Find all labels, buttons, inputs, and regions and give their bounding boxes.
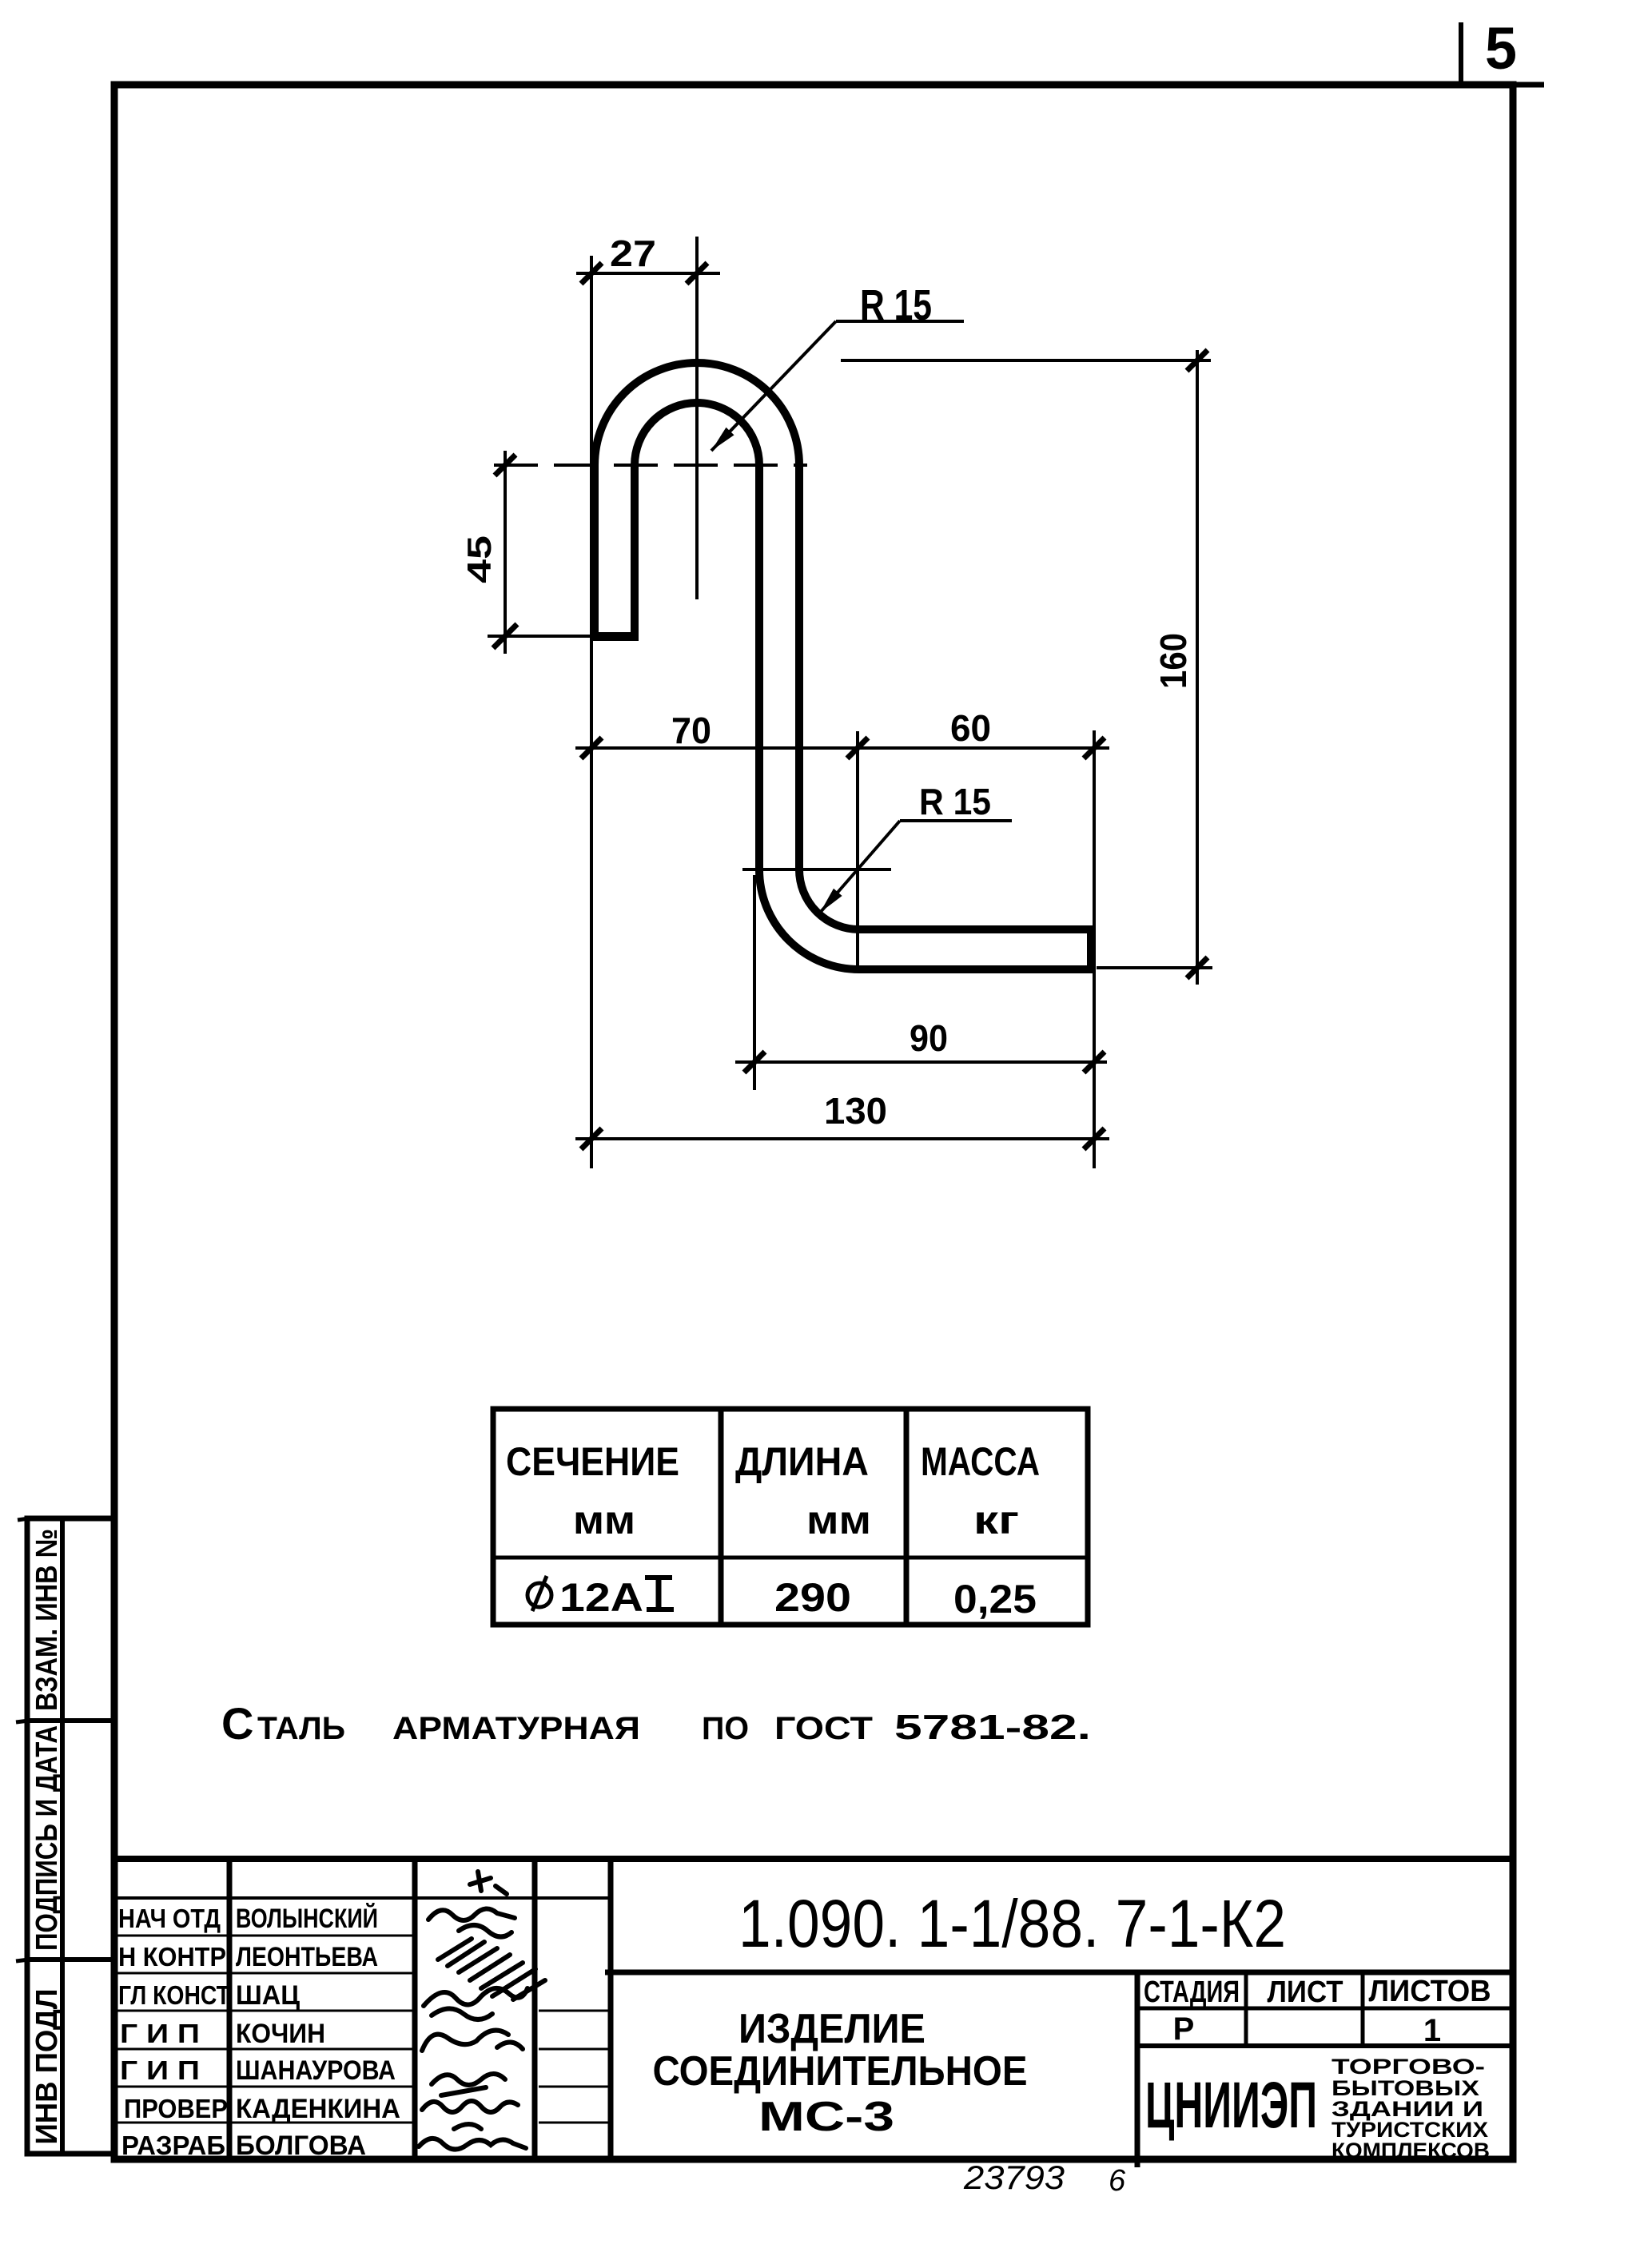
svg-text:Г И П: Г И П [120,2019,200,2048]
svg-text:ВОЛЫНСКИЙ: ВОЛЫНСКИЙ [236,1903,378,1934]
svg-text:12А: 12А [559,1575,643,1620]
svg-text:1: 1 [1423,2013,1441,2048]
svg-text:НАЧ ОТД: НАЧ ОТД [118,1904,221,1933]
svg-text:ДЛИНА: ДЛИНА [735,1439,869,1484]
svg-text:РАЗРАБ: РАЗРАБ [121,2131,225,2160]
svg-text:БОЛГОВА: БОЛГОВА [236,2131,366,2161]
svg-text:ГЛ КОНСТ: ГЛ КОНСТ [118,1980,230,2010]
svg-text:СЕЧЕНИЕ: СЕЧЕНИЕ [506,1439,679,1484]
svg-text:КОМПЛЕКСОВ: КОМПЛЕКСОВ [1332,2139,1490,2163]
svg-text:кг: кг [973,1498,1019,1542]
svg-text:ЛИСТ: ЛИСТ [1268,1976,1343,2009]
svg-text:ЛИСТОВ: ЛИСТОВ [1369,1975,1491,2008]
svg-text:С: С [221,1698,253,1749]
svg-text:130: 130 [824,1090,887,1132]
svg-text:0,25: 0,25 [953,1577,1037,1621]
svg-text:R 15: R 15 [860,281,932,329]
svg-text:90: 90 [910,1017,948,1059]
svg-text:1.090. 1-1/88. 7-1-К2: 1.090. 1-1/88. 7-1-К2 [738,1886,1286,1961]
svg-text:АРМАТУРНАЯ: АРМАТУРНАЯ [392,1711,640,1746]
svg-text:мм: мм [806,1498,871,1542]
svg-text:ВЗАМ. ИНВ №: ВЗАМ. ИНВ № [30,1529,64,1711]
svg-text:ПОДПИСЬ И ДАТА: ПОДПИСЬ И ДАТА [30,1725,64,1951]
svg-text:ШАЦ: ШАЦ [236,1980,300,2011]
svg-text:5: 5 [1485,15,1517,82]
svg-text:Р: Р [1173,2011,1195,2047]
svg-text:6: 6 [1109,2164,1126,2198]
svg-text:160: 160 [1152,633,1194,689]
svg-text:МС-3: МС-3 [758,2094,894,2140]
svg-text:ПРОВЕР: ПРОВЕР [124,2094,228,2123]
svg-text:60: 60 [950,707,991,749]
svg-text:ТОРГОВО-: ТОРГОВО- [1332,2055,1485,2079]
svg-text:R 15: R 15 [919,781,991,822]
svg-text:ЦНИИЭП: ЦНИИЭП [1145,2069,1317,2142]
svg-text:5781-82.: 5781-82. [894,1708,1091,1747]
svg-text:ИНВ ПОДЛ: ИНВ ПОДЛ [30,1989,64,2145]
svg-text:ИЗДЕЛИЕ: ИЗДЕЛИЕ [738,2006,926,2052]
svg-text:ПО: ПО [702,1711,749,1746]
svg-text:Н КОНТР: Н КОНТР [118,1942,226,1972]
svg-text:СТАДИЯ: СТАДИЯ [1144,1976,1240,2009]
svg-text:45: 45 [460,535,498,583]
svg-text:мм: мм [573,1498,635,1542]
svg-text:ГОСТ: ГОСТ [774,1711,873,1746]
svg-text:Г И П: Г И П [120,2055,200,2085]
svg-text:27: 27 [610,233,656,274]
svg-text:СОЕДИНИТЕЛЬНОЕ: СОЕДИНИТЕЛЬНОЕ [653,2048,1028,2095]
svg-text:23793: 23793 [963,2159,1065,2196]
svg-text:КАДЕНКИНА: КАДЕНКИНА [236,2094,400,2124]
svg-text:70: 70 [671,710,711,751]
svg-text:ШАНАУРОВА: ШАНАУРОВА [236,2055,396,2086]
svg-text:КОЧИН: КОЧИН [236,2019,325,2049]
svg-text:ЛЕОНТЬЕВА: ЛЕОНТЬЕВА [236,1942,378,1972]
svg-text:290: 290 [774,1575,851,1620]
svg-text:ТАЛЬ: ТАЛЬ [257,1711,345,1746]
svg-text:МАССА: МАССА [921,1439,1040,1484]
